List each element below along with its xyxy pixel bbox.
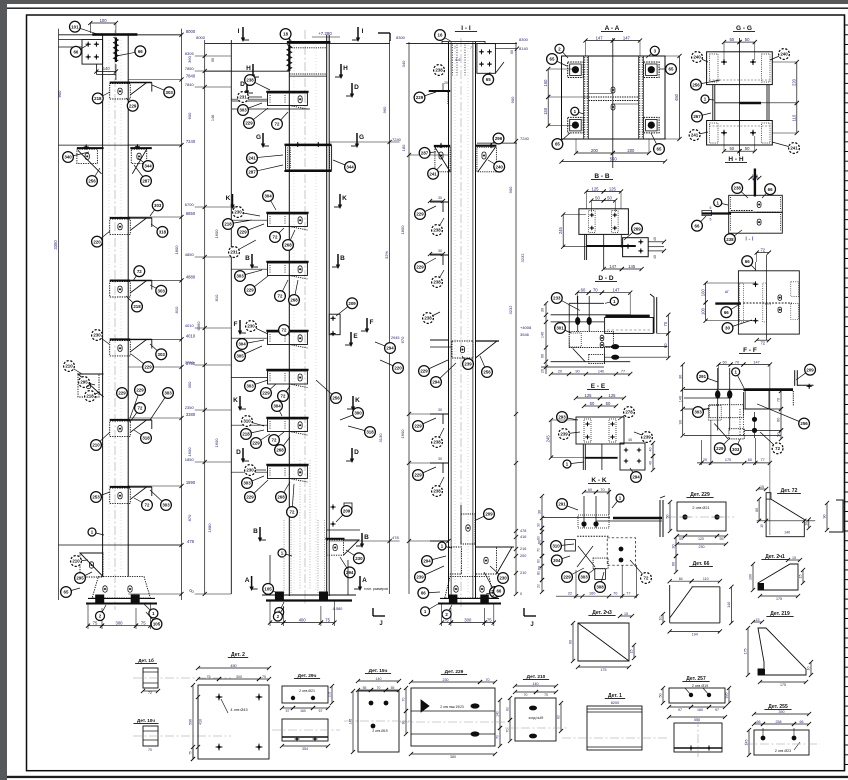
strip2 bracket row 4010 xyxy=(266,330,308,332)
svg-text:Дет. 66: Дет. 66 xyxy=(693,561,710,567)
svg-text:344: 344 xyxy=(346,165,354,170)
svg-text:72: 72 xyxy=(644,576,649,581)
svg-text:209: 209 xyxy=(343,509,351,514)
svg-text:478: 478 xyxy=(392,535,399,540)
svg-text:218: 218 xyxy=(94,96,102,101)
strip2 inner texture xyxy=(293,45,295,590)
callout 305 xyxy=(240,346,262,356)
strip2 bracket row 7840 xyxy=(266,91,308,93)
svg-text:269: 269 xyxy=(633,226,641,231)
callout 318 xyxy=(134,430,146,438)
callout 66 xyxy=(486,591,499,594)
svg-text:238: 238 xyxy=(734,186,742,191)
svg-text:1800: 1800 xyxy=(400,225,405,235)
callout 303 xyxy=(150,393,168,420)
svg-text:75: 75 xyxy=(207,675,211,679)
svg-text:229: 229 xyxy=(416,95,424,100)
svg-text:148: 148 xyxy=(211,115,215,121)
base marker flags xyxy=(268,589,280,594)
svg-text:140: 140 xyxy=(533,682,539,686)
svg-text:238: 238 xyxy=(433,228,441,233)
K-K bottom dims xyxy=(556,595,636,597)
svg-text:230: 230 xyxy=(246,468,254,473)
callout 72 xyxy=(133,271,139,281)
callout 287 xyxy=(134,165,146,181)
svg-text:D: D xyxy=(354,84,359,91)
callout 72 xyxy=(277,112,288,124)
callout 229 xyxy=(126,98,133,106)
svg-text:303: 303 xyxy=(158,289,166,294)
svg-text:303: 303 xyxy=(694,410,702,415)
svg-text:E - E: E - E xyxy=(591,383,606,390)
svg-text:2 отв Ø23: 2 отв Ø23 xyxy=(775,749,791,753)
callout 210 xyxy=(96,432,110,445)
callout 268 xyxy=(281,482,290,497)
svg-text:300: 300 xyxy=(464,617,472,622)
svg-text:60: 60 xyxy=(588,488,592,492)
svg-text:5: 5 xyxy=(752,174,754,178)
D-D bolt verticals xyxy=(577,296,579,332)
strip3 bracket row 255 xyxy=(430,254,449,256)
svg-text:50: 50 xyxy=(595,195,600,200)
svg-text:97: 97 xyxy=(678,708,682,712)
strip2 left elevation labels xyxy=(203,54,207,58)
D-D callouts xyxy=(557,298,580,310)
svg-text:Дет. 210: Дет. 210 xyxy=(527,674,546,680)
callout 303 xyxy=(150,205,158,216)
svg-text:60: 60 xyxy=(581,288,586,293)
svg-text:60: 60 xyxy=(538,540,542,544)
strip3 main bracket row at 7240 xyxy=(434,145,450,147)
svg-text:7240: 7240 xyxy=(392,137,402,142)
svg-text:72: 72 xyxy=(273,235,278,240)
callout 294 xyxy=(630,468,636,477)
svg-text:Дет. 2ч1: Дет. 2ч1 xyxy=(765,554,785,560)
svg-text:90: 90 xyxy=(823,515,827,519)
svg-text:218: 218 xyxy=(133,304,141,309)
callout 294 xyxy=(340,557,350,572)
F-F lower horizontals xyxy=(684,408,709,410)
callout 218 xyxy=(90,392,100,396)
A-A outer square xyxy=(562,56,666,139)
strip1 top cap xyxy=(59,34,182,36)
svg-text:40: 40 xyxy=(653,255,657,259)
svg-text:E: E xyxy=(353,333,358,340)
svg-text:65: 65 xyxy=(486,77,491,82)
svg-text:295: 295 xyxy=(80,380,88,385)
svg-text:268: 268 xyxy=(277,495,285,500)
svg-text:241: 241 xyxy=(691,133,699,138)
svg-text:238: 238 xyxy=(246,78,254,83)
svg-text:72: 72 xyxy=(138,406,143,411)
H-H vertical member above xyxy=(754,169,756,197)
svg-text:238: 238 xyxy=(433,489,441,494)
svg-text:4850: 4850 xyxy=(185,252,195,257)
callout 218 xyxy=(246,430,264,434)
svg-text:125: 125 xyxy=(585,393,593,398)
svg-text:8300: 8300 xyxy=(519,37,529,42)
callout 16 xyxy=(440,35,451,42)
svg-text:20: 20 xyxy=(541,369,545,373)
svg-text:7: 7 xyxy=(454,46,456,50)
strip1 bracket row 7840 with gusset xyxy=(110,82,131,84)
F-F lower dotted bolt strips xyxy=(739,409,741,436)
svg-text:70: 70 xyxy=(613,592,617,596)
callout 101 xyxy=(75,27,102,36)
svg-text:209: 209 xyxy=(806,367,814,372)
callout 229 xyxy=(266,384,276,393)
right bracket plate at 4010 xyxy=(329,314,340,335)
svg-text:301: 301 xyxy=(556,326,564,331)
svg-text:20: 20 xyxy=(703,458,707,462)
svg-text:66: 66 xyxy=(496,589,501,594)
svg-text:229: 229 xyxy=(416,265,424,270)
svg-text:5: 5 xyxy=(709,218,711,222)
svg-text:210: 210 xyxy=(65,364,73,369)
svg-text:8200: 8200 xyxy=(611,701,619,705)
callout 72 xyxy=(134,498,147,505)
A-A bottom dims xyxy=(576,152,613,154)
svg-text:Дет. 229: Дет. 229 xyxy=(690,492,710,498)
svg-text:30: 30 xyxy=(672,544,676,548)
svg-text:I - I: I - I xyxy=(745,236,753,242)
svg-text:245: 245 xyxy=(558,226,563,234)
svg-text:30: 30 xyxy=(541,308,545,312)
svg-text:30: 30 xyxy=(438,457,442,461)
svg-text:20: 20 xyxy=(444,81,448,85)
svg-text:18: 18 xyxy=(283,32,288,37)
svg-text:256: 256 xyxy=(692,82,700,87)
svg-text:77: 77 xyxy=(760,458,764,462)
svg-text:229: 229 xyxy=(144,365,152,370)
callout 229 xyxy=(418,467,436,475)
K-K left dims xyxy=(541,496,543,528)
section F-F upper xyxy=(700,247,799,354)
svg-text:H: H xyxy=(246,65,251,72)
svg-text:конд №49: конд №49 xyxy=(529,716,544,720)
svg-text:4010: 4010 xyxy=(185,323,195,328)
svg-text:84: 84 xyxy=(679,577,683,581)
svg-text:15: 15 xyxy=(624,612,628,616)
strip2 top markers xyxy=(242,27,244,40)
svg-text:72: 72 xyxy=(145,503,150,508)
svg-text:70: 70 xyxy=(663,321,668,326)
G-G right dims xyxy=(796,62,798,103)
callout 1 xyxy=(144,604,153,613)
svg-text:90: 90 xyxy=(575,370,579,374)
E-E left dim xyxy=(550,420,552,458)
K-K lower parts xyxy=(542,517,610,519)
callout 294 xyxy=(375,342,390,348)
callout 241 xyxy=(433,164,442,174)
strip2 bracket row 1850 xyxy=(266,464,308,466)
strip1 column flanges xyxy=(102,35,104,577)
svg-text:77: 77 xyxy=(621,370,625,374)
svg-text:229: 229 xyxy=(136,388,144,393)
svg-text:400: 400 xyxy=(299,617,307,622)
callout 229 xyxy=(249,108,268,123)
svg-text:70: 70 xyxy=(600,488,604,492)
G-G callouts xyxy=(697,57,708,62)
strip3 left stub row 463 xyxy=(430,462,449,464)
K-K callouts xyxy=(562,504,578,510)
svg-text:75: 75 xyxy=(262,675,266,679)
strip1 full level lines xyxy=(59,144,182,146)
svg-text:72: 72 xyxy=(272,438,277,443)
detail 15ch xyxy=(344,668,410,754)
callout 65 xyxy=(659,68,671,70)
B-B thick flange bar xyxy=(586,245,636,247)
svg-text:Дет. 257: Дет. 257 xyxy=(686,676,706,682)
svg-text:303: 303 xyxy=(164,391,172,396)
svg-text:100: 100 xyxy=(749,574,753,580)
svg-text:57: 57 xyxy=(319,709,323,713)
svg-text:294: 294 xyxy=(386,346,394,351)
svg-text:A: A xyxy=(362,577,367,584)
svg-text:B: B xyxy=(364,534,369,541)
svg-text:70: 70 xyxy=(486,678,490,682)
column elevation strip 1 xyxy=(53,18,196,630)
svg-text:10: 10 xyxy=(807,667,811,671)
svg-text:340: 340 xyxy=(64,155,72,160)
node mark 1 xyxy=(92,532,104,535)
svg-text:F - F: F - F xyxy=(743,347,757,354)
callout 238 xyxy=(437,477,444,491)
svg-text:478: 478 xyxy=(187,539,195,544)
svg-text:296: 296 xyxy=(495,136,503,141)
J corner marker xyxy=(372,608,374,616)
top gray margin strip xyxy=(0,0,848,4)
svg-text:293: 293 xyxy=(558,415,566,420)
svg-text:125: 125 xyxy=(592,186,600,191)
strip1 elevation level lines xyxy=(179,33,183,37)
svg-text:3546: 3546 xyxy=(520,332,530,337)
strip3 level lines left xyxy=(407,153,411,157)
strip3 dashed callout 238 upper xyxy=(434,65,445,76)
svg-text:66: 66 xyxy=(724,310,729,315)
svg-text:65: 65 xyxy=(669,67,674,72)
A-A centre vertical line xyxy=(612,38,614,168)
A-A serrated flange strips xyxy=(583,56,585,139)
svg-text:20: 20 xyxy=(537,584,541,588)
svg-text:65: 65 xyxy=(555,142,560,147)
svg-text:110: 110 xyxy=(792,114,797,121)
svg-text:G: G xyxy=(256,134,261,141)
strip1 bracket pair at 7240 xyxy=(77,147,104,149)
callout 72 xyxy=(280,280,288,296)
callout 230 xyxy=(251,326,268,334)
svg-text:5: 5 xyxy=(709,206,711,210)
svg-text:50: 50 xyxy=(729,146,734,151)
callout 72 xyxy=(284,330,290,336)
svg-text:55: 55 xyxy=(679,537,683,541)
svg-text:7850: 7850 xyxy=(185,66,195,71)
svg-text:550: 550 xyxy=(610,156,618,161)
svg-text:291: 291 xyxy=(558,502,566,507)
strip3 lower bracket row xyxy=(449,547,462,574)
svg-text:1600: 1600 xyxy=(400,429,405,439)
svg-text:300: 300 xyxy=(236,675,242,679)
E-E top dims xyxy=(576,397,600,399)
detail 72 gusset xyxy=(755,485,815,537)
detail 66 plate xyxy=(659,561,734,637)
callout 3 xyxy=(646,51,655,58)
svg-text:295: 295 xyxy=(76,576,84,581)
callout 210 xyxy=(69,366,82,374)
callout 287 xyxy=(425,151,436,154)
svg-text:210: 210 xyxy=(92,443,100,448)
svg-text:50: 50 xyxy=(607,195,612,200)
F-F lower small hatched rect xyxy=(729,429,744,439)
left gray margin strip xyxy=(0,0,7,780)
callout 220 xyxy=(97,231,110,242)
svg-text:303: 303 xyxy=(246,384,254,389)
G-G top dims xyxy=(724,41,740,43)
svg-text:x x x: x x x xyxy=(765,302,772,306)
svg-text:50: 50 xyxy=(606,401,611,406)
strip2 bracket row 6700 xyxy=(266,212,308,214)
svg-text:120: 120 xyxy=(698,537,704,541)
svg-text:147: 147 xyxy=(753,360,759,364)
svg-text:90: 90 xyxy=(402,721,406,725)
svg-text:241: 241 xyxy=(790,146,798,151)
svg-text:287: 287 xyxy=(248,170,256,175)
callout 340 xyxy=(68,152,89,157)
F-F lower diagonal xyxy=(714,424,728,439)
svg-text:125: 125 xyxy=(609,393,617,398)
K-K right dims xyxy=(675,537,677,556)
svg-text:175: 175 xyxy=(776,597,782,601)
svg-text:318: 318 xyxy=(159,230,167,235)
svg-text:256: 256 xyxy=(800,421,808,426)
svg-text:218: 218 xyxy=(86,394,94,399)
svg-text:15: 15 xyxy=(799,575,803,579)
J corner marker bottom xyxy=(523,608,525,616)
svg-text:60: 60 xyxy=(569,640,573,644)
svg-text:1600: 1600 xyxy=(214,438,219,448)
svg-text:870: 870 xyxy=(187,514,192,521)
callout 1 xyxy=(425,604,438,611)
callout 294 xyxy=(436,363,456,382)
svg-text:229: 229 xyxy=(414,424,422,429)
callout 229 xyxy=(256,434,270,443)
I-I left dims xyxy=(705,283,707,302)
callout 65 xyxy=(557,133,570,144)
svg-text:180: 180 xyxy=(401,144,406,151)
svg-text:140: 140 xyxy=(598,370,604,374)
detail 2ch3 gusset xyxy=(569,610,636,672)
section B-B xyxy=(133,169,843,762)
svg-text:229: 229 xyxy=(129,104,137,109)
F-F lower left dims xyxy=(682,365,684,390)
B-B right bolt block xyxy=(623,238,649,257)
callout 66 xyxy=(76,45,88,52)
svg-text:Дет. 1б: Дет. 1б xyxy=(138,657,154,663)
svg-text:140: 140 xyxy=(376,677,382,681)
svg-text:A: A xyxy=(245,577,250,584)
svg-text:105: 105 xyxy=(153,622,161,627)
callout 65 xyxy=(552,59,567,66)
svg-text:229: 229 xyxy=(716,446,724,451)
strip2 centerline xyxy=(304,30,306,605)
svg-text:303: 303 xyxy=(580,575,588,580)
K-K right flange xyxy=(659,500,661,537)
strip1 left bracket at 3550 xyxy=(78,374,99,397)
K-K hatched plate xyxy=(578,515,609,528)
svg-text:70: 70 xyxy=(524,693,528,697)
svg-text:241: 241 xyxy=(429,172,437,177)
strip2 7850 level and serrated band xyxy=(205,70,290,72)
detail 2ch1 gusset xyxy=(749,554,805,601)
svg-text:125: 125 xyxy=(609,186,617,191)
svg-text:16: 16 xyxy=(438,33,443,38)
parts table row lines xyxy=(845,24,848,26)
svg-text:239: 239 xyxy=(643,435,651,440)
callout 209 xyxy=(476,514,489,520)
callout 253 xyxy=(96,492,110,497)
svg-text:3730: 3730 xyxy=(185,360,195,365)
svg-text:294: 294 xyxy=(423,559,431,564)
detail 1b xyxy=(133,657,231,695)
strip2 boundary verticals xyxy=(204,40,206,594)
svg-text:230: 230 xyxy=(247,324,255,329)
svg-text:3130: 3130 xyxy=(378,433,383,443)
svg-text:304: 304 xyxy=(553,558,561,563)
svg-text:B - B: B - B xyxy=(594,173,609,180)
svg-text:70: 70 xyxy=(537,548,541,552)
svg-text:229: 229 xyxy=(252,441,260,446)
callout 209 xyxy=(336,303,352,316)
svg-text:810: 810 xyxy=(214,294,219,301)
E-E callouts left xyxy=(562,417,578,420)
svg-text:2350: 2350 xyxy=(185,405,195,410)
svg-text:1680: 1680 xyxy=(207,523,212,533)
svg-text:304: 304 xyxy=(273,404,281,409)
callout 238 xyxy=(250,80,270,90)
svg-text:15: 15 xyxy=(792,556,796,560)
svg-text:145: 145 xyxy=(349,719,353,725)
G-G bottom dims xyxy=(724,150,740,152)
svg-text:30: 30 xyxy=(537,523,541,527)
F-F lower right flange xyxy=(794,370,796,386)
svg-text:256: 256 xyxy=(483,370,491,375)
svg-text:+7.280: +7.280 xyxy=(318,31,332,36)
strip3 base plate xyxy=(440,597,499,599)
svg-text:3350: 3350 xyxy=(53,240,58,250)
callout 268 xyxy=(280,437,290,450)
callout 344 xyxy=(138,158,148,166)
A-A dimension top xyxy=(586,40,613,42)
svg-text:230: 230 xyxy=(355,556,363,561)
weld seam top xyxy=(115,37,117,62)
svg-text:140: 140 xyxy=(103,66,111,71)
svg-text:70: 70 xyxy=(496,735,500,739)
svg-text:H: H xyxy=(343,65,348,72)
svg-text:160: 160 xyxy=(589,592,595,596)
svg-text:Дет. 72: Дет. 72 xyxy=(781,488,798,494)
strip2 splice box at 7240 (G-G) xyxy=(284,144,331,146)
svg-text:80: 80 xyxy=(537,571,541,575)
svg-text:590: 590 xyxy=(189,719,193,725)
svg-text:1890: 1890 xyxy=(186,480,196,485)
svg-text:точн. размеров: точн. размеров xyxy=(364,587,388,591)
svg-text:75: 75 xyxy=(487,617,492,622)
svg-text:8305: 8305 xyxy=(185,51,195,56)
svg-text:60: 60 xyxy=(777,418,781,422)
svg-text:70: 70 xyxy=(506,729,510,733)
svg-text:70: 70 xyxy=(593,288,598,293)
section D-D xyxy=(133,247,843,761)
